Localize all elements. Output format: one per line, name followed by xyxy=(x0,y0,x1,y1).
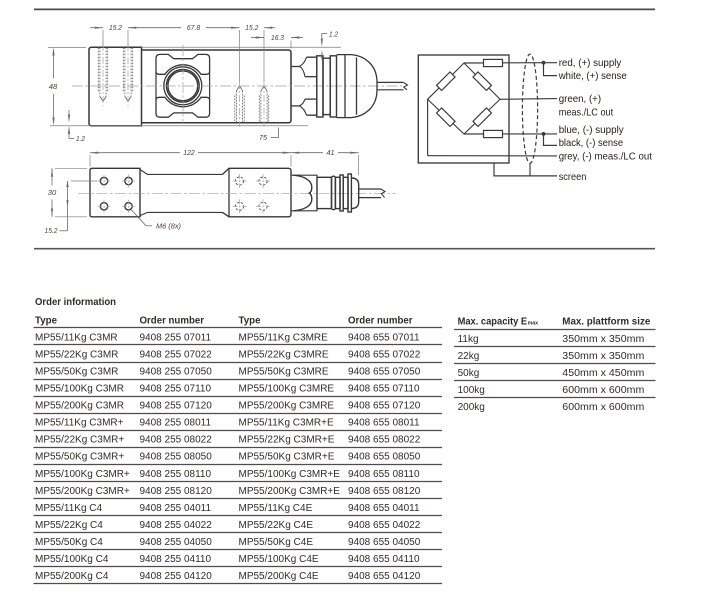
svg-text:30: 30 xyxy=(48,190,57,197)
svg-text:MP55/22Kg C4: MP55/22Kg C4 xyxy=(35,520,103,531)
svg-text:50kg: 50kg xyxy=(458,368,480,379)
svg-text:blue, (-) supply: blue, (-) supply xyxy=(559,125,625,136)
svg-text:1.2: 1.2 xyxy=(76,136,85,143)
svg-text:350mm x 350mm: 350mm x 350mm xyxy=(562,351,644,362)
svg-text:Type: Type xyxy=(35,316,57,327)
svg-text:MP55/50Kg C3MR+: MP55/50Kg C3MR+ xyxy=(35,452,124,463)
svg-text:100kg: 100kg xyxy=(458,385,485,396)
svg-text:MP55/11Kg C3MR: MP55/11Kg C3MR xyxy=(35,332,118,343)
svg-text:MP55/100Kg C4E: MP55/100Kg C4E xyxy=(239,554,319,565)
svg-text:48: 48 xyxy=(49,84,58,91)
svg-text:9408 255 04050: 9408 255 04050 xyxy=(140,537,213,548)
svg-text:9408 255 07120: 9408 255 07120 xyxy=(140,401,213,412)
svg-text:MP55/22Kg C3MRE: MP55/22Kg C3MRE xyxy=(239,349,329,360)
svg-text:max: max xyxy=(528,321,539,327)
svg-text:9408 255 04011: 9408 255 04011 xyxy=(140,503,212,514)
svg-text:red, (+) supply: red, (+) supply xyxy=(559,58,622,69)
svg-text:MP55/200Kg C4: MP55/200Kg C4 xyxy=(35,571,109,582)
svg-text:MP55/200Kg C3MR: MP55/200Kg C3MR xyxy=(35,401,124,412)
svg-text:MP55/50Kg C3MRE: MP55/50Kg C3MRE xyxy=(239,366,329,377)
svg-text:9408 655 08011: 9408 655 08011 xyxy=(348,418,420,429)
svg-text:Max. capacity E: Max. capacity E xyxy=(458,317,528,328)
svg-text:9408 655 04011: 9408 655 04011 xyxy=(348,503,420,514)
svg-text:9408 255 07110: 9408 255 07110 xyxy=(140,383,212,394)
svg-text:1.2: 1.2 xyxy=(329,31,338,38)
svg-text:Order number: Order number xyxy=(140,316,205,327)
svg-text:200kg: 200kg xyxy=(458,402,485,413)
svg-text:MP55/100Kg C3MR+E: MP55/100Kg C3MR+E xyxy=(239,469,341,480)
svg-text:screen: screen xyxy=(559,172,587,183)
svg-text:Max. plattform size: Max. plattform size xyxy=(562,317,650,328)
svg-text:15.2: 15.2 xyxy=(109,25,122,32)
svg-text:MP55/11Kg C3MR+: MP55/11Kg C3MR+ xyxy=(35,418,124,429)
svg-text:600mm x 600mm: 600mm x 600mm xyxy=(562,385,644,396)
svg-text:9408 655 07050: 9408 655 07050 xyxy=(348,366,421,377)
svg-text:15.2: 15.2 xyxy=(45,228,58,235)
svg-text:meas./LC out: meas./LC out xyxy=(559,107,614,118)
svg-text:9408 655 07011: 9408 655 07011 xyxy=(348,332,420,343)
svg-text:MP55/200Kg C3MR+: MP55/200Kg C3MR+ xyxy=(35,486,130,497)
svg-text:MP55/100Kg C3MR+: MP55/100Kg C3MR+ xyxy=(35,469,130,480)
svg-text:600mm x 600mm: 600mm x 600mm xyxy=(562,402,644,413)
svg-text:MP55/50Kg C4: MP55/50Kg C4 xyxy=(35,537,103,548)
svg-text:9408 655 08022: 9408 655 08022 xyxy=(348,435,421,446)
svg-text:9408 655 07022: 9408 655 07022 xyxy=(348,349,421,360)
svg-text:9408 255 08120: 9408 255 08120 xyxy=(140,486,213,497)
svg-text:16.3: 16.3 xyxy=(271,35,284,42)
svg-text:450mm x 450mm: 450mm x 450mm xyxy=(562,368,644,379)
svg-text:67.8: 67.8 xyxy=(187,25,201,32)
svg-text:9408 255 08050: 9408 255 08050 xyxy=(140,452,213,463)
svg-text:MP55/50Kg C4E: MP55/50Kg C4E xyxy=(239,537,314,548)
svg-text:22kg: 22kg xyxy=(458,351,480,362)
svg-text:9408 255 04120: 9408 255 04120 xyxy=(140,571,213,582)
svg-text:MP55/100Kg C4: MP55/100Kg C4 xyxy=(35,554,109,565)
svg-text:9408 255 08110: 9408 255 08110 xyxy=(140,469,212,480)
svg-text:9408 255 08011: 9408 255 08011 xyxy=(140,418,212,429)
svg-text:MP55/22Kg C3MR+E: MP55/22Kg C3MR+E xyxy=(239,435,335,446)
svg-text:M6 (8x): M6 (8x) xyxy=(156,224,181,231)
svg-text:MP55/100Kg C3MR: MP55/100Kg C3MR xyxy=(35,383,124,394)
svg-text:9408 655 07110: 9408 655 07110 xyxy=(348,383,420,394)
svg-text:MP55/200Kg C3MR+E: MP55/200Kg C3MR+E xyxy=(239,486,341,497)
svg-text:MP55/11Kg C4E: MP55/11Kg C4E xyxy=(239,503,313,514)
svg-text:MP55/22Kg C3MR: MP55/22Kg C3MR xyxy=(35,349,118,360)
svg-text:Order number: Order number xyxy=(348,316,413,327)
svg-text:9408 655 04120: 9408 655 04120 xyxy=(348,571,421,582)
svg-text:9408 655 04050: 9408 655 04050 xyxy=(348,537,421,548)
svg-text:9408 255 04110: 9408 255 04110 xyxy=(140,554,212,565)
svg-text:MP55/11Kg C3MR+E: MP55/11Kg C3MR+E xyxy=(239,418,334,429)
svg-text:MP55/50Kg C3MR+E: MP55/50Kg C3MR+E xyxy=(239,452,335,463)
svg-text:grey, (-) meas./LC out: grey, (-) meas./LC out xyxy=(559,152,652,163)
svg-text:MP55/200Kg C4E: MP55/200Kg C4E xyxy=(239,571,319,582)
svg-text:Order information: Order information xyxy=(35,297,116,308)
svg-text:9408 255 08022: 9408 255 08022 xyxy=(140,435,213,446)
svg-text:white, (+) sense: white, (+) sense xyxy=(558,71,627,82)
svg-text:MP55/22Kg C4E: MP55/22Kg C4E xyxy=(239,520,314,531)
svg-text:9408 655 07120: 9408 655 07120 xyxy=(348,401,421,412)
svg-text:MP55/100Kg C3MRE: MP55/100Kg C3MRE xyxy=(239,383,335,394)
svg-text:9408 255 07050: 9408 255 07050 xyxy=(140,366,213,377)
svg-text:MP55/200Kg C3MRE: MP55/200Kg C3MRE xyxy=(239,401,335,412)
svg-text:15.2: 15.2 xyxy=(245,25,258,32)
svg-text:9408 655 04022: 9408 655 04022 xyxy=(348,520,421,531)
svg-text:MP55/11Kg C4: MP55/11Kg C4 xyxy=(35,503,103,514)
svg-text:9408 655 08110: 9408 655 08110 xyxy=(348,469,420,480)
svg-text:MP55/22Kg C3MR+: MP55/22Kg C3MR+ xyxy=(35,435,124,446)
svg-text:9408 655 08050: 9408 655 08050 xyxy=(348,452,421,463)
svg-text:MP55/50Kg C3MR: MP55/50Kg C3MR xyxy=(35,366,118,377)
svg-text:Type: Type xyxy=(239,316,261,327)
svg-text:350mm x 350mm: 350mm x 350mm xyxy=(562,334,644,345)
svg-text:9408 655 08120: 9408 655 08120 xyxy=(348,486,421,497)
svg-text:black, (-) sense: black, (-) sense xyxy=(559,138,624,149)
svg-text:41: 41 xyxy=(327,150,335,157)
svg-text:9408 255 04022: 9408 255 04022 xyxy=(140,520,213,531)
svg-text:11kg: 11kg xyxy=(458,334,479,345)
svg-text:122: 122 xyxy=(183,150,195,157)
svg-text:9408 655 04110: 9408 655 04110 xyxy=(348,554,420,565)
svg-text:75: 75 xyxy=(259,135,267,142)
svg-text:green, (+): green, (+) xyxy=(559,94,601,105)
svg-text:9408 255 07022: 9408 255 07022 xyxy=(140,349,213,360)
svg-text:MP55/11Kg C3MRE: MP55/11Kg C3MRE xyxy=(239,332,329,343)
svg-text:9408 255 07011: 9408 255 07011 xyxy=(140,332,212,343)
